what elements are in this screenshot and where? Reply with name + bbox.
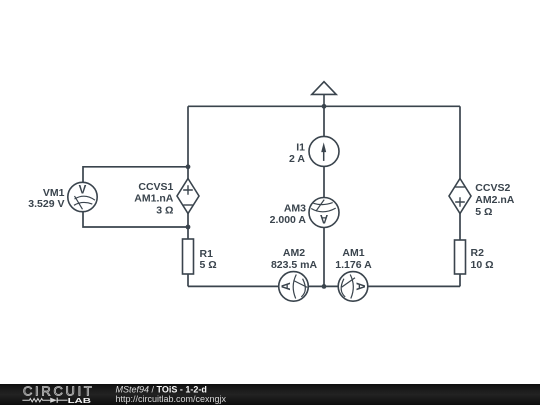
- antenna symbol at top node: [312, 82, 336, 107]
- wire AM3 to bottom rail: [323, 228, 325, 287]
- logo resistor zigzag: [22, 398, 67, 403]
- ammeter AM2: [279, 272, 309, 302]
- node junction dot top center: [322, 104, 327, 109]
- wire between AM2 and AM1: [308, 285, 338, 287]
- CCVS2 dependent source: [449, 179, 471, 214]
- resistor R1: [183, 239, 194, 274]
- svg-text:LAB: LAB: [68, 397, 91, 405]
- svg-text:MStef94 / TOiS - 1-2-d: MStef94 / TOiS - 1-2-d: [116, 384, 207, 394]
- wire CCVS2 to R2: [459, 214, 461, 241]
- wire I1 to AM3: [323, 166, 325, 197]
- svg-text:R2: R2: [471, 247, 485, 259]
- wire bottom rail left: [188, 285, 279, 287]
- wire top horizontal rail: [188, 105, 460, 107]
- svg-text:5 Ω: 5 Ω: [200, 259, 217, 271]
- svg-text:R1: R1: [200, 248, 214, 260]
- wire R1 to bottom rail: [187, 274, 189, 286]
- svg-text:3 Ω: 3 Ω: [156, 204, 173, 216]
- svg-text:http://circuitlab.com/cexngjx: http://circuitlab.com/cexngjx: [116, 394, 227, 404]
- svg-text:2.000 A: 2.000 A: [270, 214, 307, 226]
- svg-text:10 Ω: 10 Ω: [471, 259, 494, 271]
- svg-text:V: V: [79, 185, 87, 197]
- current source I1: [309, 136, 339, 166]
- svg-text:5 Ω: 5 Ω: [475, 206, 492, 218]
- wire bottom rail right: [368, 285, 460, 287]
- node junction dot left lower: [186, 225, 191, 230]
- svg-text:AM1: AM1: [342, 247, 364, 259]
- CCVS1 dependent source: [177, 179, 199, 214]
- wire center vertical upper: [323, 106, 325, 136]
- svg-text:AM2.nA: AM2.nA: [475, 194, 515, 206]
- svg-text:AM3: AM3: [284, 203, 306, 215]
- svg-text:3.529 V: 3.529 V: [28, 198, 64, 210]
- svg-text:I1: I1: [296, 141, 305, 153]
- ammeter AM1: [338, 272, 368, 302]
- ammeter AM3: [309, 198, 339, 228]
- logo diode: [50, 398, 57, 403]
- svg-text:823.5 mA: 823.5 mA: [271, 259, 318, 271]
- svg-text:AM2: AM2: [283, 247, 305, 259]
- wire CCVS1 to R1: [187, 214, 189, 240]
- svg-text:A: A: [281, 282, 293, 290]
- wire R2 to bottom rail: [459, 274, 461, 286]
- node junction dot bottom center: [322, 284, 327, 289]
- svg-text:1.176 A: 1.176 A: [335, 259, 372, 271]
- svg-text:CCVS2: CCVS2: [475, 182, 510, 194]
- node junction dot left upper: [186, 164, 191, 169]
- wire left vertical: [187, 106, 189, 178]
- svg-text:A: A: [353, 282, 365, 290]
- svg-text:A: A: [320, 212, 328, 224]
- wire VM1 bottom branch: [83, 212, 188, 227]
- svg-text:AM1.nA: AM1.nA: [134, 193, 174, 205]
- voltmeter VM1: [68, 182, 97, 211]
- svg-text:2 A: 2 A: [289, 153, 305, 165]
- wire VM1 top branch: [83, 167, 188, 183]
- resistor R2: [455, 240, 466, 274]
- svg-text:CCVS1: CCVS1: [138, 181, 173, 193]
- wire right vertical upper: [459, 106, 461, 178]
